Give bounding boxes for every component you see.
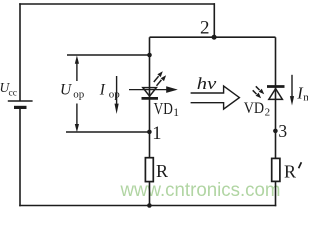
node 1 dot bbox=[147, 130, 152, 135]
photodiode VD2 incident arrow a bbox=[256, 86, 264, 94]
svg-text:hν: hν bbox=[197, 74, 217, 93]
wire: left vertical lower (battery to bottom) bbox=[19, 107, 21, 206]
svg-text:1: 1 bbox=[152, 124, 161, 144]
svg-text:I: I bbox=[99, 81, 106, 98]
wire: top horizontal bbox=[19, 3, 215, 5]
resistor R' body bbox=[272, 158, 280, 181]
LED VD1 horizontal emission arrow bbox=[129, 86, 178, 93]
wire: Uop bottom reference line (node 1) bbox=[66, 131, 150, 133]
battery Ucc long plate bbox=[8, 100, 33, 102]
svg-text:cc: cc bbox=[9, 88, 17, 98]
svg-text:2: 2 bbox=[200, 18, 210, 39]
photodiode VD2 triangle bbox=[269, 89, 283, 100]
photodiode VD2 incident arrow b bbox=[253, 90, 261, 98]
svg-text:R: R bbox=[156, 161, 168, 181]
Iop current arrow bbox=[115, 76, 119, 114]
wire: Uop top reference line bbox=[67, 54, 150, 56]
Uop measurement double arrow bbox=[75, 55, 79, 132]
LED VD1 diagonal emission arrow b bbox=[157, 75, 167, 86]
wire: VD2 branch vertical bbox=[275, 37, 277, 206]
svg-text:3: 3 bbox=[278, 121, 287, 141]
node 2 dot bbox=[212, 35, 217, 40]
svg-text:VD: VD bbox=[154, 99, 173, 118]
svg-text:2: 2 bbox=[265, 107, 271, 119]
node dot (Uop top on VD1 branch) bbox=[147, 53, 152, 58]
svg-text:U: U bbox=[60, 82, 73, 99]
svg-text:VD: VD bbox=[244, 100, 264, 117]
photodiode VD2 cathode bar bbox=[267, 85, 285, 88]
wire: left vertical upper (to battery) bbox=[19, 3, 21, 101]
wire: bottom horizontal bbox=[19, 205, 276, 207]
svg-text:R: R bbox=[284, 162, 296, 182]
wire: node 2 horizontal rail bbox=[150, 36, 276, 38]
LED VD1 cathode bar bbox=[142, 97, 159, 100]
svg-text:m: m bbox=[303, 92, 308, 104]
battery Ucc short thick plate bbox=[14, 106, 27, 109]
svg-text:op: op bbox=[73, 89, 85, 101]
light hv block arrow bbox=[191, 86, 240, 109]
svg-text:op: op bbox=[109, 88, 121, 100]
node 3 dot bbox=[273, 129, 278, 134]
bottom junction dot bbox=[147, 203, 152, 208]
wire: VD1 branch vertical bbox=[149, 37, 151, 205]
LED VD1 triangle bbox=[143, 88, 157, 97]
LED VD1 diagonal emission arrow a bbox=[154, 71, 163, 82]
wire: right stub from top down to node 2 bbox=[213, 3, 215, 37]
resistor R body bbox=[145, 158, 153, 182]
svg-text:1: 1 bbox=[173, 107, 179, 119]
Im current arrow bbox=[290, 75, 294, 106]
svg-text:www.cntronics.com: www.cntronics.com bbox=[120, 180, 281, 201]
